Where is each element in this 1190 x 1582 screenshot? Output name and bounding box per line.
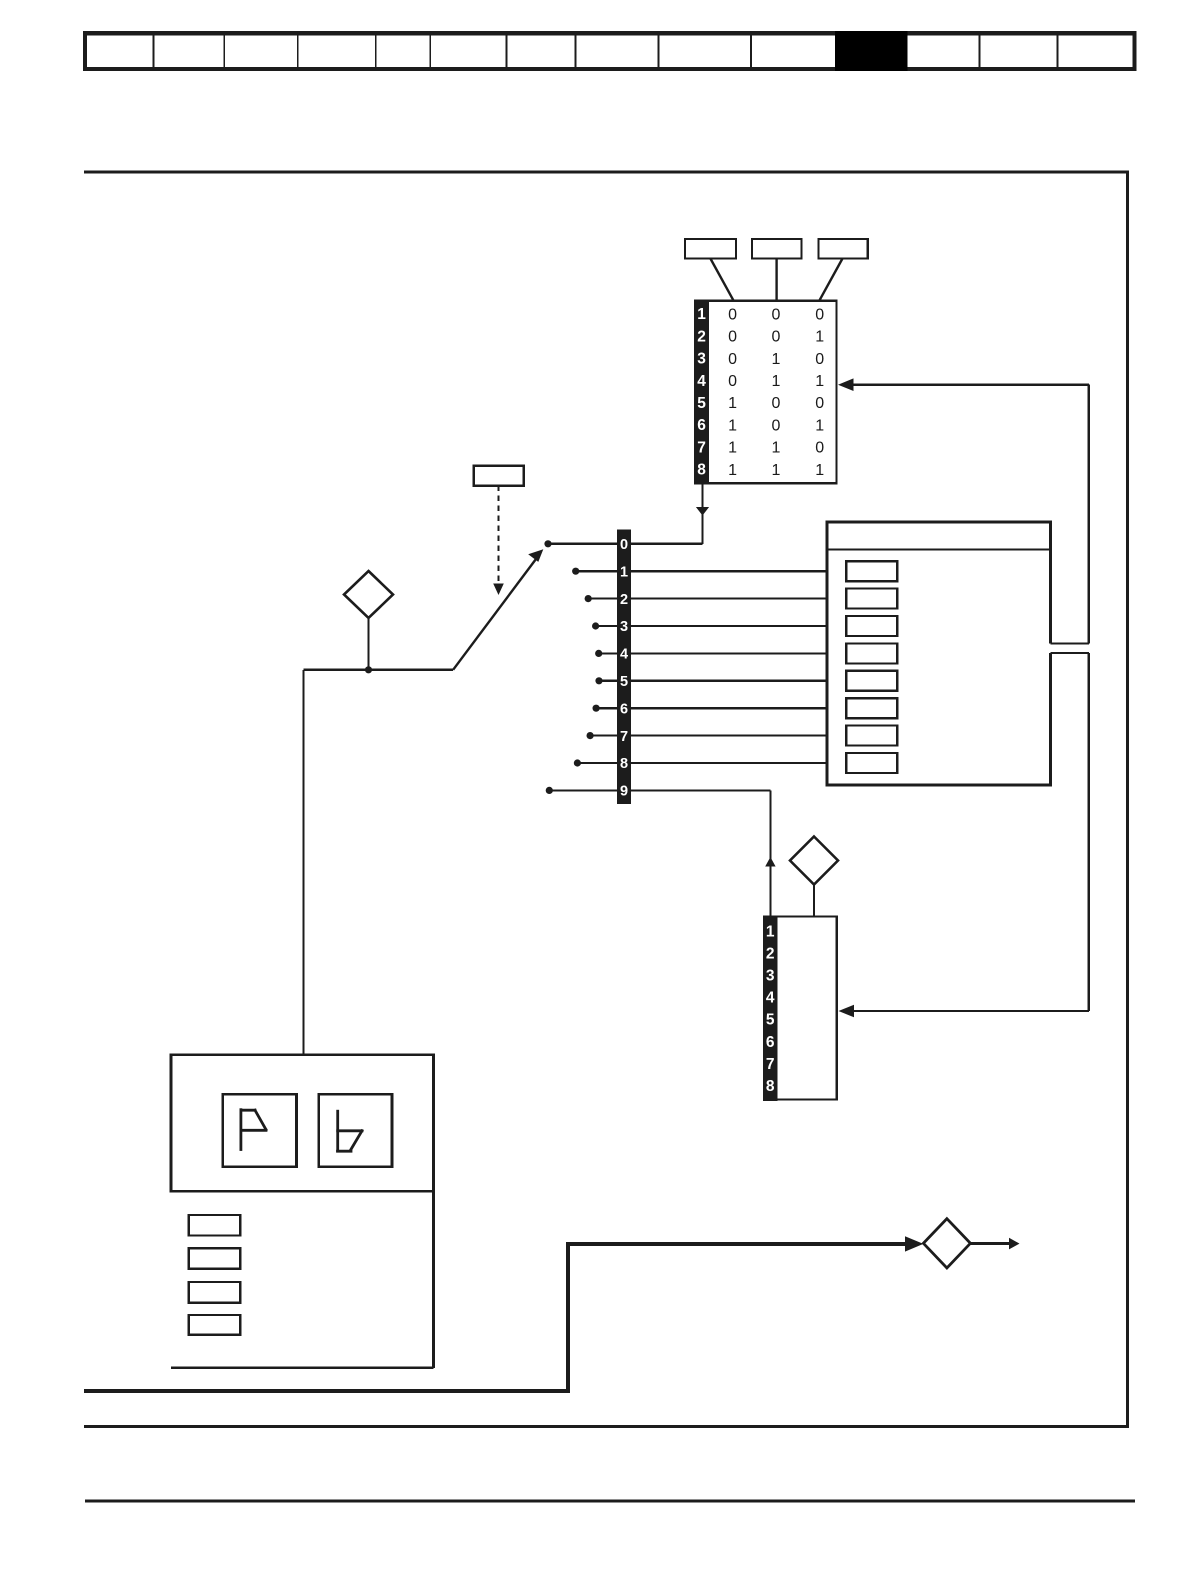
svg-text:0: 0 [620, 537, 628, 553]
svg-text:7: 7 [697, 439, 706, 456]
svg-text:3: 3 [697, 351, 706, 368]
svg-text:1: 1 [728, 440, 737, 457]
svg-text:0: 0 [728, 351, 737, 368]
svg-text:3: 3 [766, 968, 775, 985]
svg-text:1: 1 [772, 440, 781, 457]
svg-text:8: 8 [766, 1078, 775, 1095]
svg-text:0: 0 [728, 329, 737, 346]
svg-text:1: 1 [697, 306, 706, 323]
svg-text:1: 1 [728, 462, 737, 479]
svg-text:2: 2 [766, 945, 775, 962]
svg-text:0: 0 [772, 306, 781, 323]
svg-text:3: 3 [620, 619, 628, 635]
svg-text:0: 0 [815, 440, 824, 457]
svg-text:5: 5 [620, 674, 628, 690]
svg-text:0: 0 [728, 306, 737, 323]
svg-text:0: 0 [772, 417, 781, 434]
svg-text:6: 6 [620, 701, 628, 717]
svg-text:5: 5 [766, 1012, 775, 1029]
svg-text:1: 1 [815, 329, 824, 346]
svg-text:1: 1 [815, 417, 824, 434]
svg-text:1: 1 [728, 417, 737, 434]
svg-text:0: 0 [815, 395, 824, 412]
svg-text:1: 1 [766, 923, 775, 940]
svg-text:0: 0 [815, 306, 824, 323]
svg-text:4: 4 [620, 647, 628, 663]
svg-text:1: 1 [620, 564, 628, 580]
svg-text:8: 8 [697, 462, 706, 479]
svg-text:0: 0 [772, 395, 781, 412]
svg-text:1: 1 [772, 462, 781, 479]
svg-text:7: 7 [620, 729, 628, 745]
svg-text:0: 0 [728, 373, 737, 390]
svg-text:6: 6 [697, 417, 706, 434]
svg-text:1: 1 [815, 462, 824, 479]
svg-text:2: 2 [697, 328, 706, 345]
svg-text:1: 1 [815, 373, 824, 390]
svg-text:4: 4 [766, 990, 775, 1007]
svg-text:0: 0 [772, 329, 781, 346]
svg-text:2: 2 [620, 592, 628, 608]
svg-text:4: 4 [697, 373, 706, 390]
svg-text:0: 0 [815, 351, 824, 368]
svg-text:8: 8 [620, 756, 628, 772]
svg-text:7: 7 [766, 1056, 775, 1073]
svg-text:1: 1 [772, 373, 781, 390]
svg-text:1: 1 [772, 351, 781, 368]
svg-text:9: 9 [620, 784, 628, 800]
svg-text:5: 5 [697, 395, 706, 412]
svg-text:6: 6 [766, 1034, 775, 1051]
svg-text:1: 1 [728, 395, 737, 412]
